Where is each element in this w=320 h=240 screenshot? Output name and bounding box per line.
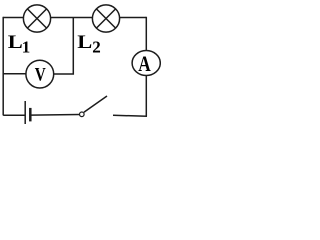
voltmeter V1 circle [26, 60, 54, 88]
wire right rail lower (ammeter to bottom corner) [145, 75, 147, 116]
wire top-right segment (L2 to right corner) [119, 17, 146, 19]
wire bottom-right (switch contact to right rail) [113, 114, 147, 117]
switch S lever (open) [84, 96, 107, 112]
svg-text:1: 1 [22, 38, 31, 57]
battery cell long plate (+) [24, 101, 26, 124]
wire voltmeter left lead [3, 73, 26, 75]
battery cell short plate (-) [29, 108, 32, 122]
svg-text:2: 2 [92, 37, 101, 56]
lamp L2 [92, 5, 119, 32]
wire left rail [2, 17, 4, 116]
svg-text:A: A [138, 51, 151, 76]
wire top-left segment [3, 17, 23, 19]
wire bottom-left (rail to battery) [3, 114, 24, 116]
svg-text:V: V [35, 64, 46, 85]
ammeter A1 circle [132, 51, 160, 76]
svg-text:L: L [8, 32, 23, 53]
wire top-middle segment (L1 to L2 with junction) [51, 17, 93, 19]
switch S pivot [80, 112, 85, 117]
lamp L1 [23, 5, 50, 32]
wire battery to switch [32, 114, 80, 117]
wire right rail upper (corner to ammeter) [145, 17, 147, 51]
node junction between L1 and L2, wire down to voltmeter [54, 18, 74, 75]
svg-text:L: L [77, 32, 92, 53]
